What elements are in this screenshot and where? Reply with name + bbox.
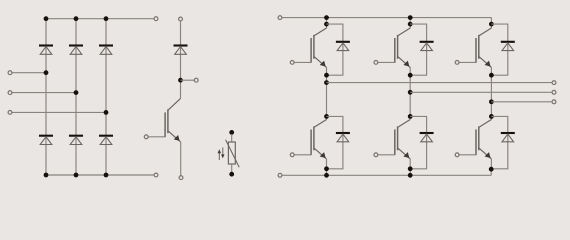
varistor RV1 (226, 130, 240, 177)
diode D22 (420, 133, 434, 142)
wire rectifier DC+ top rail (46, 18, 154, 20)
terminal brake resistor R+ (194, 78, 198, 82)
terminal phase V output (552, 90, 556, 94)
diode D5 (69, 136, 83, 145)
diode D1 (39, 46, 53, 55)
wire phase W output line (491, 101, 551, 103)
wire emitter lead bottom phase W (490, 159, 492, 169)
node brake resistor tap (178, 78, 183, 83)
wire antiparallel diode branch top phase W (491, 24, 507, 75)
wire inverter DC+ rail (282, 17, 491, 19)
wire phase W leg vertical (490, 18, 492, 120)
node collector branch bottom phase V (408, 114, 413, 119)
node collector branch top phase W (489, 22, 494, 27)
terminal DC+ of rectifier (154, 17, 158, 21)
diode D2 (69, 46, 83, 55)
node emitter junction top phase V (408, 73, 413, 78)
node L2 junction (74, 90, 79, 95)
diode D12 (420, 42, 434, 51)
node emitter junction bottom phase U (324, 166, 329, 171)
wire phase U output line (327, 82, 552, 84)
wire antiparallel diode branch bottom phase V (410, 116, 426, 168)
terminal phase U output (552, 81, 556, 85)
node DC- rail junction phase U (324, 173, 329, 178)
wire brake resistor stub (181, 79, 195, 81)
wire emitter lead bottom phase U (326, 159, 328, 175)
node phase V output tap (408, 90, 413, 95)
node DC+ rail junction phase U (324, 15, 329, 20)
varistor current arrows (218, 148, 225, 161)
IGBT V5 (378, 120, 410, 159)
IGBT V7 (148, 98, 180, 141)
terminal DC- of rectifier (154, 173, 158, 177)
diode D11 (336, 42, 350, 51)
IGBT V3 (459, 28, 491, 67)
node collector branch top phase U (324, 22, 329, 27)
gate terminal of V6 (455, 153, 459, 157)
node DC- rail junction phase V (408, 173, 413, 178)
diode D3 (99, 46, 113, 55)
node emitter junction top phase U (324, 73, 329, 78)
gate terminal of V4 (290, 153, 294, 157)
terminal AC input L3 (8, 111, 12, 115)
gate terminal of V7 (144, 135, 148, 139)
terminal AC input L2 (8, 91, 12, 95)
diode D21 (336, 133, 350, 142)
wire emitter lead bottom phase V (409, 159, 411, 175)
node rectifier bottom rail junctions (44, 173, 109, 178)
wire phase U leg vertical (326, 18, 328, 120)
node collector branch bottom phase W (489, 114, 494, 119)
terminal AC input L1 (8, 71, 12, 75)
wire antiparallel diode branch top phase V (410, 24, 426, 75)
node L1 junction (44, 70, 49, 75)
node phase W output tap (489, 99, 494, 104)
wire phase V output line (410, 91, 552, 93)
node emitter junction bottom phase W (489, 167, 494, 172)
diode D23 (501, 133, 515, 142)
node rectifier top rail junctions (44, 16, 109, 21)
node collector branch top phase V (408, 22, 413, 27)
wire brake branch upper (180, 21, 182, 98)
node collector branch bottom phase U (324, 114, 329, 119)
wire inverter DC- rail (282, 174, 491, 176)
terminal inverter DC+ (278, 16, 282, 20)
wire antiparallel diode branch bottom phase U (327, 116, 343, 168)
diode D4 (39, 136, 53, 145)
gate terminal of V3 (455, 61, 459, 65)
wire rectifier DC- bottom rail (46, 174, 154, 176)
gate terminal of V1 (290, 61, 294, 65)
node emitter junction bottom phase V (408, 166, 413, 171)
IGBT V6 (459, 120, 491, 159)
IGBT V2 (378, 28, 410, 67)
wire rectifier leg x=106 (105, 19, 107, 175)
node phase U output tap (324, 80, 329, 85)
wire phase V leg vertical (409, 18, 411, 120)
diode D6 (99, 136, 113, 145)
terminal inverter DC- (278, 173, 282, 177)
wire antiparallel diode branch bottom phase W (491, 116, 507, 168)
gate terminal of V5 (374, 153, 378, 157)
gate terminal of V2 (374, 61, 378, 65)
wire rectifier leg x=46 (45, 19, 47, 175)
wire DC- rail corner to phase W (490, 169, 492, 175)
node DC+ rail junction phase V (408, 15, 413, 20)
IGBT V1 (294, 28, 326, 67)
terminal brake R- / emitter (179, 176, 183, 180)
wire antiparallel diode branch top phase U (327, 24, 343, 75)
wire AC input L2 (12, 92, 76, 94)
diode D13 (501, 42, 515, 51)
wire brake emitter lead (180, 142, 182, 176)
terminal phase W output (552, 100, 556, 104)
wire AC input L3 (12, 111, 106, 113)
wire rectifier leg x=76 (75, 19, 77, 175)
IGBT V4 (294, 120, 326, 159)
wire AC input L1 (12, 72, 46, 74)
node emitter junction top phase W (489, 73, 494, 78)
diode D7 (174, 46, 188, 55)
terminal brake DC+ input (179, 17, 183, 21)
node L3 junction (104, 110, 109, 115)
